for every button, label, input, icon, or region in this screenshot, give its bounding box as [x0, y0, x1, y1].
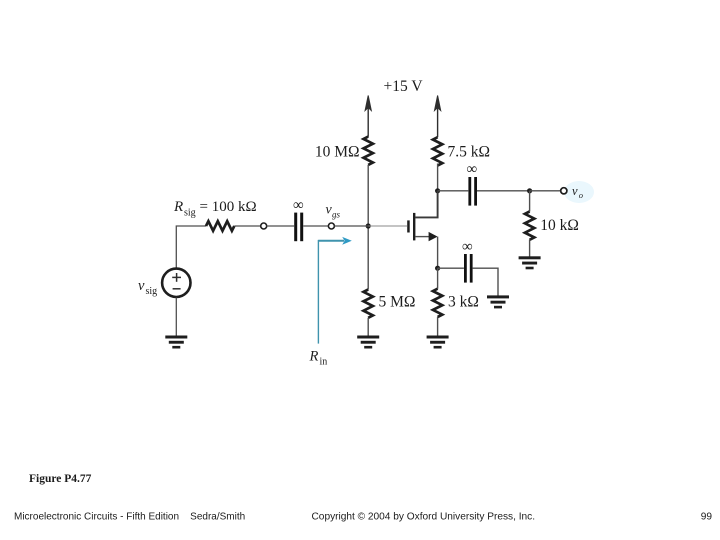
wire gate node to transistor gate [368, 225, 407, 227]
wire output node to vo terminal [530, 190, 561, 192]
ground under bypass capacitor [487, 295, 509, 308]
wire source down to source node [437, 237, 439, 269]
svg-text:99: 99 [701, 512, 713, 523]
terminal vo (open circle) [561, 188, 567, 194]
svg-text:o: o [579, 190, 583, 200]
svg-text:gs: gs [332, 210, 341, 220]
svg-text:= 100 kΩ: = 100 kΩ [200, 199, 257, 215]
resistor RG2 5 Mohm (vertical) [364, 290, 373, 318]
wire vsig to ground [175, 298, 177, 337]
wire rail-A from 10 Mohm down to gate node [367, 165, 369, 226]
wire 5 Mohm to ground [367, 318, 369, 336]
svg-text:Copyright © 2004 by Oxford Uni: Copyright © 2004 by Oxford University Pr… [312, 512, 536, 523]
resistor RL 10 kohm (vertical) [525, 212, 534, 240]
svg-text:7.5 kΩ: 7.5 kΩ [448, 143, 491, 160]
capacitor CC2 (output, infinite) [468, 177, 477, 206]
node gate junction dot [366, 223, 371, 228]
svg-text:v: v [572, 184, 578, 198]
svg-text:+15 V: +15 V [383, 78, 423, 95]
svg-text:R: R [309, 349, 319, 365]
svg-text:∞: ∞ [462, 239, 473, 255]
capacitor CC1 (input, infinite) [294, 213, 303, 242]
Rin measurement arrow (cyan) [318, 240, 344, 344]
resistor RG1 10 Mohm (vertical) [364, 137, 373, 165]
svg-text:in: in [320, 357, 328, 368]
ground under 10 kohm [519, 256, 541, 269]
svg-text:Microelectronic Circuits - Fif: Microelectronic Circuits - Fifth Edition… [14, 512, 245, 523]
svg-text:∞: ∞ [293, 197, 304, 213]
wire source node down to 3 kohm [437, 268, 439, 289]
wire bypass capacitor to ground stub [473, 268, 498, 296]
vo halo [564, 181, 594, 203]
wire output capacitor to output node [477, 190, 530, 192]
svg-text:sig: sig [184, 208, 196, 219]
svg-text:R: R [173, 199, 183, 215]
wire vsig top corner to Rsig [176, 226, 206, 268]
svg-text:∞: ∞ [466, 162, 477, 178]
svg-text:10 kΩ: 10 kΩ [540, 217, 579, 234]
node drain junction dot [435, 188, 440, 193]
node output junction dot [527, 188, 532, 193]
wire drain node to output capacitor [438, 190, 469, 192]
resistor Rsig 100 kohm (horizontal) [206, 221, 234, 231]
transistor Q1 (NMOS) gate bar [407, 220, 410, 232]
wire terminal to CC1 [267, 225, 294, 227]
transistor Q1 source lead with arrow [415, 236, 430, 238]
supply arrow right (VDD to 7.5 k ohm branch) [435, 96, 441, 138]
svg-text:sig: sig [146, 286, 158, 297]
svg-text:v: v [138, 278, 145, 294]
wire source node to bypass capacitor [438, 267, 464, 269]
supply arrow left (VDD to 10 M ohm branch) [365, 96, 371, 137]
svg-text:5 MΩ: 5 MΩ [379, 293, 416, 310]
svg-text:10 MΩ: 10 MΩ [315, 143, 360, 160]
transistor Q1 channel bar [413, 213, 415, 241]
wire CC1 to gate-side open terminal [303, 225, 328, 227]
wire open terminal to gate node [334, 225, 368, 227]
wire gate node down to 5 Mohm [367, 226, 369, 290]
transistor Q1 drain lead [415, 191, 438, 218]
ground under 5 Mohm [357, 336, 379, 349]
wire 3 kohm to ground [437, 317, 439, 336]
svg-text:Figure P4.77: Figure P4.77 [29, 473, 92, 485]
wire rail-B from 7.5 kohm down to drain node [437, 164, 439, 191]
ground under 3 kohm [427, 336, 449, 349]
node source junction dot [435, 266, 440, 271]
terminal (open circle) before CC1 [261, 223, 267, 229]
svg-text:3 kΩ: 3 kΩ [448, 293, 479, 310]
ground under vsig [165, 336, 187, 349]
capacitor CS (bypass, infinite) [464, 254, 473, 283]
resistor RD 7.5 kohm (vertical) [433, 137, 442, 165]
resistor RS 3 kohm (vertical) [433, 289, 442, 317]
terminal (open circle) after CC1 [328, 223, 334, 229]
wire output node down to 10 kohm [529, 191, 531, 212]
wire 10 kohm to ground [529, 240, 531, 257]
wire Rsig to open terminal [234, 225, 260, 227]
source vsig (circle with plus minus) [162, 269, 190, 297]
